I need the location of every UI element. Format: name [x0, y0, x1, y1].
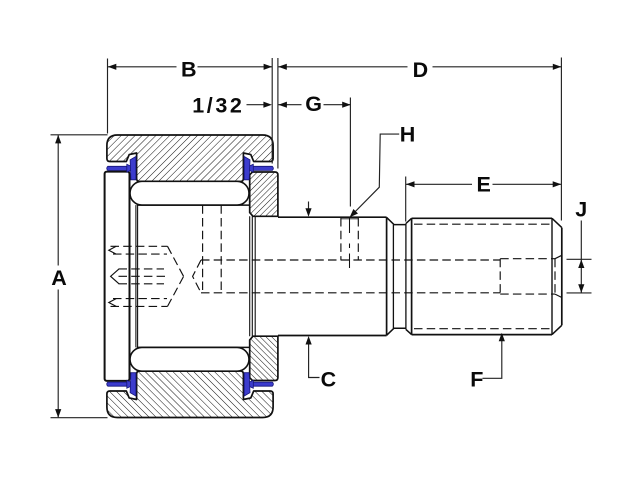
- svg-text:E: E: [477, 172, 491, 196]
- svg-text:J: J: [575, 198, 587, 222]
- svg-text:A: A: [51, 266, 67, 290]
- svg-text:H: H: [400, 122, 416, 146]
- svg-text:1/32: 1/32: [192, 94, 244, 118]
- svg-text:D: D: [413, 58, 429, 82]
- svg-text:F: F: [470, 368, 483, 392]
- svg-text:B: B: [181, 57, 197, 81]
- svg-text:C: C: [321, 368, 337, 392]
- svg-text:G: G: [305, 92, 322, 116]
